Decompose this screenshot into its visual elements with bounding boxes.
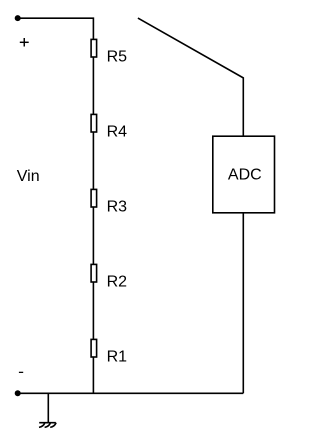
resistor R3 — [91, 189, 97, 207]
label: + terminal — [20, 38, 29, 47]
resistor R1 — [91, 339, 97, 357]
wire: R1 bottom to bottom rail — [92, 357, 94, 393]
resistor R4 — [91, 114, 97, 132]
label: - terminal — [19, 371, 23, 373]
node A (Vin + junction dot) — [15, 15, 21, 21]
wire: R4 bottom to R3 top — [92, 132, 94, 189]
wire: top rail from node A to divider top — [18, 18, 94, 39]
wire: ADC output to bottom rail — [242, 213, 244, 393]
wire: R5 bottom to R4 top — [92, 57, 94, 114]
ground — [39, 393, 56, 427]
wire: diagonal tap from divider top to ADC input — [138, 18, 243, 136]
wire: R2 bottom to R1 top — [92, 282, 94, 339]
resistor R2 — [91, 264, 97, 282]
svg-text:Vin: Vin — [17, 168, 40, 185]
svg-text:R5: R5 — [107, 48, 128, 65]
svg-text:R4: R4 — [107, 123, 128, 140]
svg-text:R2: R2 — [107, 273, 128, 290]
svg-text:R3: R3 — [107, 198, 128, 215]
op-amp U1: ADC block — [213, 136, 275, 213]
node B (Vin - junction dot) — [15, 390, 21, 396]
svg-text:R1: R1 — [107, 348, 128, 365]
resistor R5 — [91, 39, 97, 57]
svg-text:ADC: ADC — [228, 167, 262, 184]
wire: R3 bottom to R2 top — [92, 207, 94, 264]
wire: bottom rail — [18, 392, 244, 394]
